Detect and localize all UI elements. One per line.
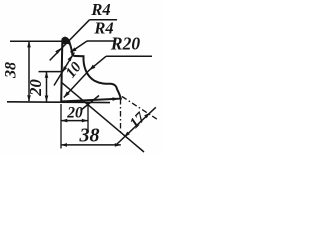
svg-text:17: 17 bbox=[127, 110, 149, 132]
svg-text:R4: R4 bbox=[90, 0, 110, 19]
wire: bottom 20 dimension line bbox=[61, 120, 88, 122]
wire: R4 first leader shelf bbox=[90, 19, 118, 21]
wire: short perpendicular stroke crossing baseline bbox=[81, 96, 100, 111]
wire: R4 first leader bbox=[50, 20, 90, 61]
wire: R20 leader shelf bbox=[106, 55, 152, 57]
wire: left 20 dimension line bbox=[46, 72, 48, 102]
tip ink blob bbox=[63, 38, 70, 45]
wire: long 45-degree line to bottom-right corner bbox=[62, 83, 144, 152]
svg-text:38: 38 bbox=[79, 125, 100, 147]
wire: right extension for bottom 20 bbox=[87, 102, 89, 133]
wire: bottom baseline extension for vertical dimensions bbox=[7, 101, 110, 104]
wire: R4 second leader shelf bbox=[87, 40, 116, 42]
wire: dash-dot vertical extension at right bbox=[120, 99, 122, 132]
svg-text:R20: R20 bbox=[110, 34, 140, 54]
wire: arrow on bottom edge pointing right at end face bbox=[112, 97, 118, 101]
wire: 10 dimension line across upper leg bbox=[54, 53, 74, 86]
wire: bottom 38 dimension line bbox=[61, 144, 121, 146]
part outline: left edge, tip R4, right edge, step, R20 fillet, R4 corner, end face, bottom edge bbox=[61, 38, 121, 102]
wire: R4 second leader bbox=[71, 41, 88, 52]
wire: left 38 dimension line bbox=[28, 41, 30, 101]
svg-text:20: 20 bbox=[66, 105, 83, 122]
svg-text:20: 20 bbox=[26, 79, 45, 97]
wire: dash-dot 45-degree extension for 17 bbox=[122, 97, 158, 120]
svg-text:38: 38 bbox=[2, 62, 19, 79]
wire: R20 leader with two arrowheads bbox=[64, 56, 106, 97]
wire: left extension for bottom dims bbox=[60, 104, 62, 149]
wire: 17 dimension line bbox=[117, 107, 156, 144]
wire: top extension line for 38 bbox=[10, 40, 62, 42]
wire: extension line for vertical 20 bbox=[39, 71, 62, 73]
